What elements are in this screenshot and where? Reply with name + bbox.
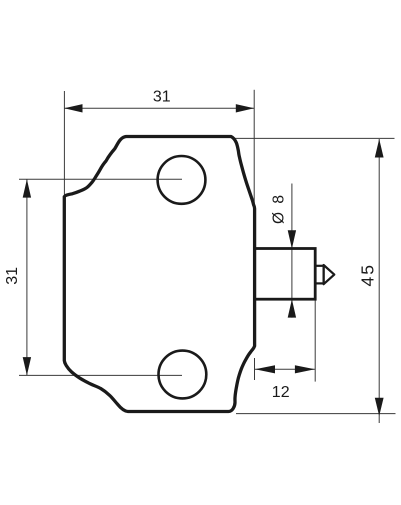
svg-text:31: 31 bbox=[153, 89, 171, 106]
svg-text:45: 45 bbox=[358, 263, 378, 286]
svg-text:31: 31 bbox=[4, 267, 21, 285]
svg-text:12: 12 bbox=[272, 384, 290, 401]
svg-text:Ø 8: Ø 8 bbox=[271, 193, 288, 224]
